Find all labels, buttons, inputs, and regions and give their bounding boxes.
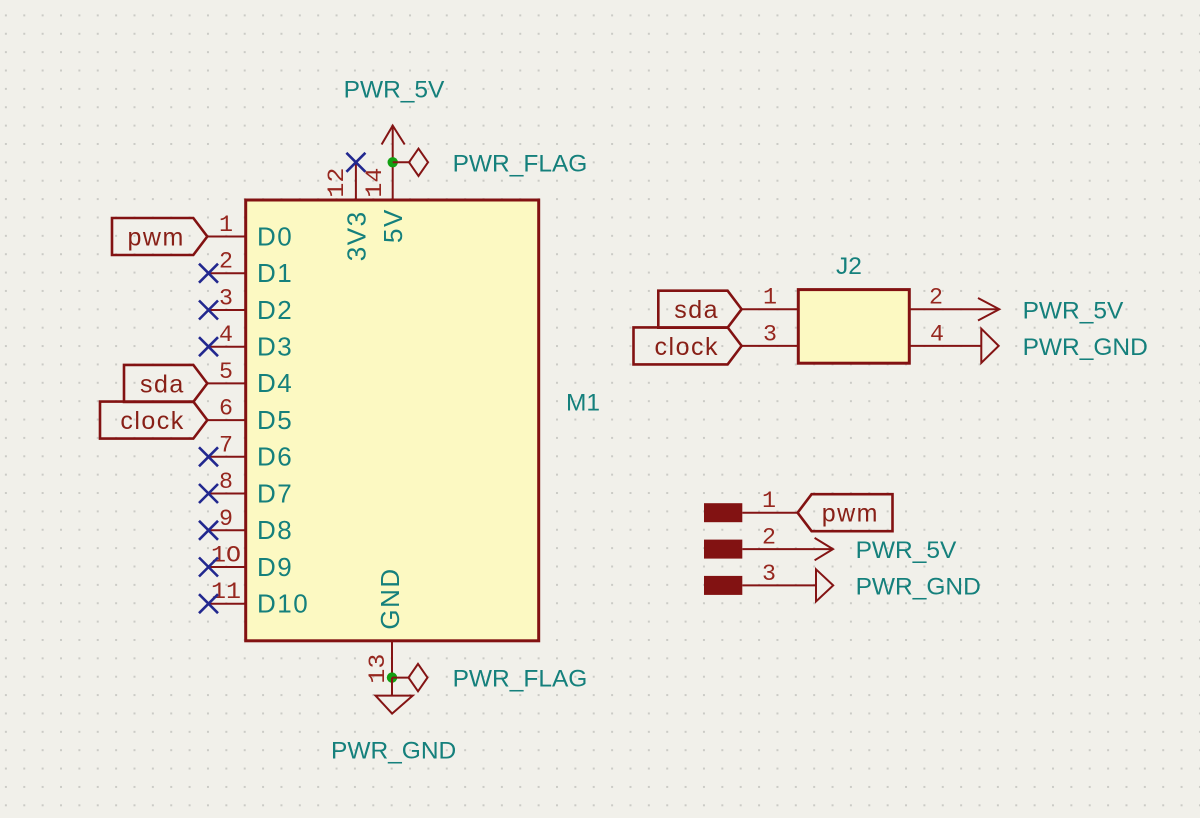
wire to PWR_FLAG bottom bbox=[392, 677, 409, 679]
connector pin 3 wire bbox=[742, 561, 816, 587]
global label sda (J2 pin 1) bbox=[658, 291, 741, 328]
global label clock (J2 pin 3) bbox=[634, 327, 742, 364]
connector J2 body bbox=[798, 290, 909, 364]
pin 14 5V bbox=[362, 162, 408, 243]
no-connect X pin 11 bbox=[199, 594, 218, 613]
svg-text:12: 12 bbox=[324, 168, 350, 198]
pin 3 D2 bbox=[207, 286, 293, 325]
svg-text:3: 3 bbox=[763, 321, 777, 347]
hierarchical label PWR_GND (J2 pin 4) bbox=[981, 329, 1148, 363]
pin 11 D10 bbox=[207, 579, 309, 618]
svg-text:1: 1 bbox=[763, 285, 777, 311]
connector pin 2 wire bbox=[742, 525, 833, 551]
svg-text:9: 9 bbox=[219, 506, 233, 532]
connector pin 1 wire bbox=[742, 488, 797, 514]
svg-text:D5: D5 bbox=[257, 405, 293, 435]
svg-text:1: 1 bbox=[219, 212, 233, 238]
connector pin pad 2 bbox=[704, 540, 742, 559]
svg-text:PWR_GND: PWR_GND bbox=[856, 573, 981, 600]
hierarchical label PWR_5V (J2 pin 2) bbox=[978, 297, 1124, 324]
ic M1 body bbox=[246, 200, 539, 641]
svg-text:8: 8 bbox=[219, 469, 233, 495]
hierarchical label PWR_5V (conn pin 2) bbox=[815, 537, 957, 564]
svg-text:PWR_5V: PWR_5V bbox=[1023, 297, 1124, 324]
reference M1 bbox=[566, 390, 600, 417]
svg-text:D6: D6 bbox=[257, 442, 293, 472]
pin 12 3V3 bbox=[324, 162, 371, 261]
wire to PWR_FLAG top bbox=[393, 161, 409, 163]
svg-text:clock: clock bbox=[655, 333, 719, 361]
svg-text:pwm: pwm bbox=[128, 224, 185, 252]
svg-text:D3: D3 bbox=[257, 332, 293, 362]
power flag PWR_FLAG top bbox=[409, 149, 587, 178]
pin 13 GND bbox=[365, 567, 405, 683]
pin 6 D5 bbox=[207, 396, 293, 435]
svg-text:PWR_5V: PWR_5V bbox=[344, 77, 445, 104]
hierarchical label PWR_GND (conn pin 3) bbox=[816, 569, 981, 601]
svg-text:2: 2 bbox=[762, 525, 776, 551]
pin 9 D8 bbox=[207, 506, 293, 545]
svg-text:4: 4 bbox=[219, 322, 233, 348]
svg-text:5: 5 bbox=[219, 359, 233, 385]
svg-text:1O: 1O bbox=[211, 543, 241, 569]
pin 10 D9 bbox=[207, 543, 293, 582]
no-connect X pin 10 bbox=[199, 558, 218, 577]
svg-text:PWR_FLAG: PWR_FLAG bbox=[453, 150, 588, 177]
svg-text:PWR_FLAG: PWR_FLAG bbox=[453, 666, 588, 693]
no-connect X pin 2 bbox=[199, 264, 218, 283]
svg-text:PWR_GND: PWR_GND bbox=[331, 738, 456, 765]
svg-text:M1: M1 bbox=[566, 390, 600, 417]
connector pin pad 1 bbox=[704, 503, 742, 522]
pin 1 D0 bbox=[207, 212, 293, 251]
J2 pin 3 bbox=[742, 321, 799, 347]
no-connect X pin 9 bbox=[199, 521, 218, 540]
connector pin pad 3 bbox=[704, 576, 742, 595]
power flag PWR_FLAG bottom bbox=[409, 664, 588, 693]
svg-text:D7: D7 bbox=[257, 478, 293, 508]
svg-text:3: 3 bbox=[762, 561, 776, 587]
svg-text:clock: clock bbox=[120, 407, 184, 435]
junction node top bbox=[388, 157, 398, 167]
junction node bottom bbox=[387, 672, 397, 682]
svg-text:14: 14 bbox=[362, 168, 388, 198]
J2 pin 4 bbox=[909, 321, 981, 347]
svg-text:J2: J2 bbox=[836, 253, 862, 280]
no-connect X pin 12 bbox=[346, 153, 365, 172]
pin 8 D7 bbox=[207, 469, 293, 508]
svg-text:11: 11 bbox=[211, 579, 241, 605]
J2 pin 1 bbox=[742, 285, 799, 311]
svg-text:D10: D10 bbox=[257, 589, 309, 619]
svg-text:GND: GND bbox=[375, 567, 405, 629]
svg-text:PWR_5V: PWR_5V bbox=[856, 537, 957, 564]
svg-text:2: 2 bbox=[219, 249, 233, 275]
svg-text:6: 6 bbox=[219, 396, 233, 422]
power symbol PWR_5V bbox=[344, 77, 445, 163]
global label pwm (conn pin 1) bbox=[798, 494, 893, 531]
global label sda (pin 5) bbox=[124, 365, 207, 402]
svg-text:7: 7 bbox=[219, 432, 233, 458]
svg-text:D2: D2 bbox=[257, 295, 293, 325]
no-connect X pin 3 bbox=[199, 301, 218, 320]
svg-text:3: 3 bbox=[219, 286, 233, 312]
J2 pin 2 bbox=[909, 285, 999, 311]
pin 4 D3 bbox=[207, 322, 293, 361]
svg-text:3V3: 3V3 bbox=[341, 210, 371, 261]
svg-text:4: 4 bbox=[930, 321, 944, 347]
svg-text:D0: D0 bbox=[257, 221, 293, 251]
no-connect X pin 8 bbox=[199, 484, 218, 503]
svg-text:2: 2 bbox=[929, 285, 943, 311]
svg-text:sda: sda bbox=[140, 370, 185, 398]
global label clock (pin 6) bbox=[100, 402, 207, 439]
power symbol PWR_GND bbox=[331, 678, 456, 765]
pin 2 D1 bbox=[207, 249, 293, 288]
svg-text:1: 1 bbox=[762, 488, 776, 514]
global label pwm (pin 1) bbox=[112, 218, 207, 255]
svg-text:sda: sda bbox=[674, 296, 719, 324]
pin 5 D4 bbox=[207, 359, 293, 398]
svg-text:5V: 5V bbox=[378, 208, 408, 243]
svg-text:D8: D8 bbox=[257, 515, 293, 545]
pin 7 D6 bbox=[207, 432, 293, 471]
svg-text:pwm: pwm bbox=[822, 500, 879, 528]
reference J2 bbox=[836, 253, 862, 280]
svg-text:D9: D9 bbox=[257, 552, 293, 582]
svg-text:D1: D1 bbox=[257, 258, 293, 288]
svg-text:D4: D4 bbox=[257, 368, 293, 398]
no-connect X pin 4 bbox=[199, 337, 218, 356]
no-connect X pin 7 bbox=[199, 447, 218, 466]
svg-text:PWR_GND: PWR_GND bbox=[1023, 334, 1148, 361]
